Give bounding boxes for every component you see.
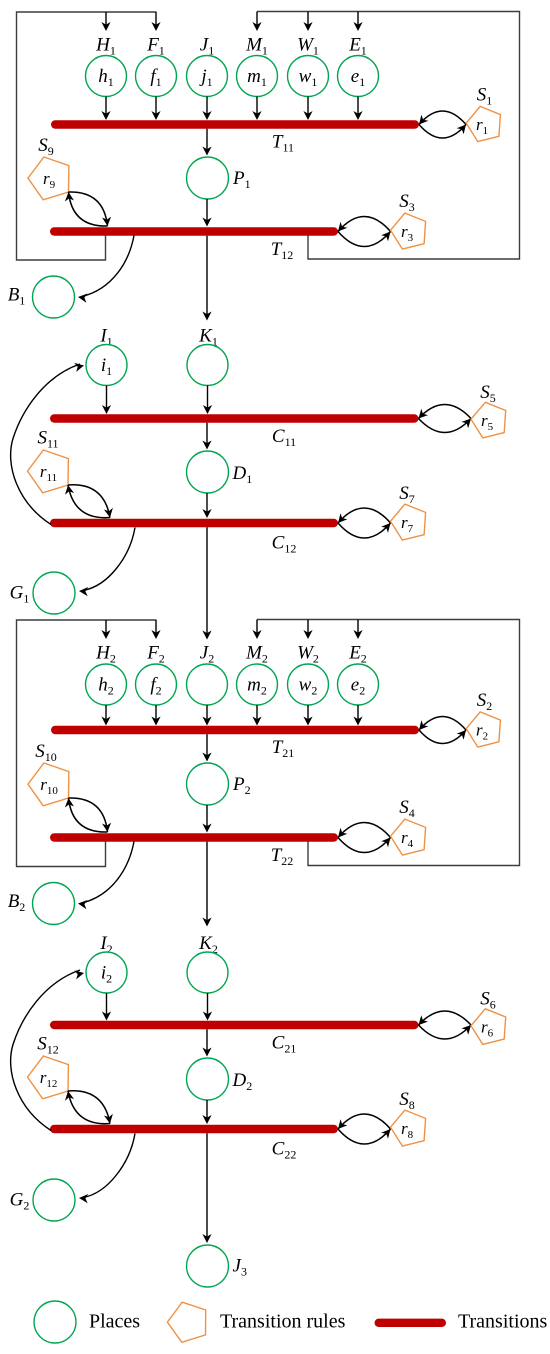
label C12 xyxy=(272,533,297,556)
place B2 xyxy=(33,883,75,925)
transition C22 xyxy=(54,1125,334,1133)
label T22 xyxy=(271,845,294,868)
label S1 xyxy=(477,85,493,108)
process box 2 left/top outline xyxy=(17,620,157,867)
legend label Places xyxy=(89,1311,140,1333)
long arrow T12 to K1 xyxy=(202,236,211,321)
transition rule S8 pentagon xyxy=(391,1110,426,1146)
arrow f2 to T21 xyxy=(151,705,160,726)
label r1 inside S1 xyxy=(476,115,488,137)
label J1 xyxy=(200,35,214,58)
input arrow into H2 from box top xyxy=(101,620,110,639)
place h1 xyxy=(86,56,127,97)
label r6 inside S6 xyxy=(481,1018,494,1040)
place B1 xyxy=(33,276,75,318)
label S4 xyxy=(399,797,415,820)
place D2 xyxy=(187,1058,229,1100)
place w1 xyxy=(288,56,329,97)
input arrow into E2 from box top xyxy=(353,620,362,640)
label M2 xyxy=(245,643,268,666)
process box 1 left/top outline xyxy=(17,12,157,260)
transition rule S1 pentagon xyxy=(466,106,500,141)
place e2 xyxy=(338,664,379,705)
arrow K1 to C11 xyxy=(203,386,212,415)
label C22 xyxy=(272,1139,297,1162)
place h2 xyxy=(86,664,127,705)
label M1 xyxy=(245,35,268,58)
place D1 xyxy=(187,451,229,493)
label r7 inside S7 xyxy=(401,513,414,535)
arc pair T12 <-> S3 xyxy=(338,217,391,247)
transition C12 xyxy=(54,519,334,527)
label S10 xyxy=(35,741,57,764)
place K1 xyxy=(187,345,228,386)
label F1 xyxy=(146,35,165,58)
transition rule S4 pentagon xyxy=(391,819,426,855)
transition rule S11 pentagon xyxy=(28,450,69,493)
input arrow into F2 from box top xyxy=(151,620,160,639)
label J3 xyxy=(233,1256,247,1279)
place G2 xyxy=(33,1179,75,1221)
label B1 xyxy=(8,285,26,308)
input arrow into E1 from box top xyxy=(353,12,362,32)
label E1 xyxy=(348,35,367,58)
arrow h2 to T21 xyxy=(101,705,110,726)
transition rule S12 pentagon xyxy=(28,1056,69,1099)
label S6 xyxy=(480,989,496,1012)
label I1 xyxy=(99,326,112,349)
label S3 xyxy=(399,191,415,214)
label r12 inside S12 xyxy=(40,1068,58,1090)
input arrow into W1 from box top xyxy=(303,12,312,32)
label G2 xyxy=(10,1190,30,1213)
label H2 xyxy=(95,643,116,666)
label D1 xyxy=(232,463,253,486)
input arrow into H1 from box top xyxy=(101,12,110,31)
arc pair T22 <-> S4 xyxy=(338,823,391,853)
curved arrow C22 to G2 xyxy=(79,1134,135,1204)
label C11 xyxy=(272,426,296,449)
long arrow C12 down xyxy=(202,527,211,639)
place f1 xyxy=(136,56,177,97)
svg-text:Transition rules: Transition rules xyxy=(220,1311,346,1333)
place j1 xyxy=(187,56,228,97)
arrow w2 to T21 xyxy=(303,705,312,726)
arrow m2 to T21 xyxy=(252,705,261,726)
long arrow C22 down xyxy=(202,1133,211,1243)
legend transition symbol xyxy=(379,1319,442,1327)
transition T12 xyxy=(54,227,334,235)
curved arrow T12 to B1 xyxy=(78,236,134,303)
arrow i2 to C21 xyxy=(102,993,111,1021)
label W1 xyxy=(297,35,319,58)
arc pair C11 <-> S5 xyxy=(419,405,472,433)
feedback arc C22 to i2 xyxy=(11,970,84,1131)
curved arrow T22 to B2 xyxy=(78,842,134,910)
arrow j2 to T21 xyxy=(202,705,211,726)
curved arrow C12 to G1 xyxy=(79,528,135,597)
label T12 xyxy=(271,239,294,262)
place e1 xyxy=(338,56,379,97)
place m2 xyxy=(237,664,278,705)
transition T21 xyxy=(55,726,415,734)
label K1 xyxy=(198,326,218,349)
label r9 inside S9 xyxy=(43,169,56,191)
label W2 xyxy=(297,643,319,666)
arrow f1 to T11 xyxy=(151,97,160,121)
legend label Transitions xyxy=(458,1311,548,1333)
place w2 xyxy=(288,664,329,705)
transition C11 xyxy=(54,414,414,422)
place j2 xyxy=(187,664,228,705)
label T21 xyxy=(272,737,295,760)
transition rule S5 pentagon xyxy=(471,402,506,438)
arc pair C21 <-> S6 xyxy=(419,1011,472,1039)
arrow e2 to T21 xyxy=(353,705,362,726)
label B2 xyxy=(8,891,26,914)
arrow C21 to D2 xyxy=(202,1029,211,1056)
place P1 xyxy=(187,157,229,199)
label S11 xyxy=(37,428,58,451)
arrow T21 to P2 xyxy=(202,734,211,761)
label K2 xyxy=(198,933,218,956)
arrow e1 to T11 xyxy=(353,97,362,121)
input arrow into F1 from box top xyxy=(151,12,160,31)
arrow P2 to T22 xyxy=(202,805,211,833)
label T11 xyxy=(272,132,294,155)
label P2 xyxy=(232,774,251,797)
label r2 inside S2 xyxy=(476,721,488,743)
label r8 inside S8 xyxy=(401,1119,414,1141)
label r5 inside S5 xyxy=(481,411,494,433)
transition rule S3 pentagon xyxy=(391,213,426,249)
arrow j1 to T11 xyxy=(202,97,211,121)
label S7 xyxy=(399,483,415,506)
label S12 xyxy=(37,1034,59,1057)
label F2 xyxy=(146,643,165,666)
arrow T11 to P1 xyxy=(202,129,211,156)
arrow h1 to T11 xyxy=(101,97,110,121)
arrow w1 to T11 xyxy=(303,97,312,121)
label C21 xyxy=(272,1033,297,1056)
label r4 inside S4 xyxy=(401,828,414,850)
arrow D1 to C12 xyxy=(202,493,211,518)
place K2 xyxy=(187,952,228,993)
place G1 xyxy=(33,572,75,614)
arrow K2 to C21 xyxy=(203,993,212,1021)
transition T11 xyxy=(55,120,415,128)
arc pair T21 <-> S2 xyxy=(419,717,466,744)
arrow D2 to C22 xyxy=(202,1100,211,1124)
arc pair S9 <-> T12 xyxy=(65,192,111,226)
arc pair C12 <-> S7 xyxy=(338,508,391,538)
svg-text:Places: Places xyxy=(89,1311,140,1333)
arrow P1 to T12 xyxy=(202,199,211,227)
transition rule S2 pentagon xyxy=(466,712,500,747)
arrow C11 to D1 xyxy=(202,423,211,450)
transition C21 xyxy=(54,1021,414,1029)
legend place symbol xyxy=(34,1301,76,1343)
process box 1 right outline xyxy=(257,12,520,260)
label S8 xyxy=(399,1089,415,1112)
transition rule S10 pentagon xyxy=(28,763,69,806)
legend transition-rule symbol xyxy=(167,1302,205,1342)
place J3 xyxy=(187,1245,229,1287)
arc pair S11 <-> C12 xyxy=(65,485,113,518)
place i2 xyxy=(86,952,127,993)
label r3 inside S3 xyxy=(401,222,414,244)
arc pair T11 <-> S1 xyxy=(419,111,466,138)
label J2 xyxy=(200,643,214,666)
label G1 xyxy=(10,583,30,606)
input arrow into M2 from box top xyxy=(252,620,261,640)
label E2 xyxy=(348,643,367,666)
arrow i1 to C11 xyxy=(102,386,111,415)
place i1 xyxy=(86,345,127,386)
transition rule S7 pentagon xyxy=(391,504,426,540)
label r10 inside S10 xyxy=(40,775,58,797)
label I2 xyxy=(99,933,112,956)
transition rule S6 pentagon xyxy=(471,1009,506,1045)
process box 2 right outline xyxy=(257,620,520,866)
arc pair S10 <-> T22 xyxy=(65,798,111,832)
place m1 xyxy=(237,56,278,97)
place f2 xyxy=(136,664,177,705)
label H1 xyxy=(95,35,116,58)
arc pair S12 <-> C22 xyxy=(65,1091,113,1124)
label D2 xyxy=(232,1070,253,1093)
label S5 xyxy=(480,382,496,405)
feedback arc C12 to i1 xyxy=(11,363,84,525)
place P2 xyxy=(187,763,229,805)
label r11 inside S11 xyxy=(40,462,57,484)
svg-text:Transitions: Transitions xyxy=(458,1311,548,1333)
long arrow T22 to K2 xyxy=(202,842,211,927)
legend label Transition rules xyxy=(220,1311,346,1333)
label P1 xyxy=(232,168,251,191)
transition rule S9 pentagon xyxy=(28,157,69,200)
label S2 xyxy=(477,690,493,713)
input arrow into M1 from box top xyxy=(252,12,261,32)
input arrow into W2 from box top xyxy=(303,620,312,640)
transition T22 xyxy=(54,833,334,841)
label S9 xyxy=(38,135,54,158)
arrow m1 to T11 xyxy=(252,97,261,121)
arc pair C22 <-> S8 xyxy=(338,1114,391,1144)
